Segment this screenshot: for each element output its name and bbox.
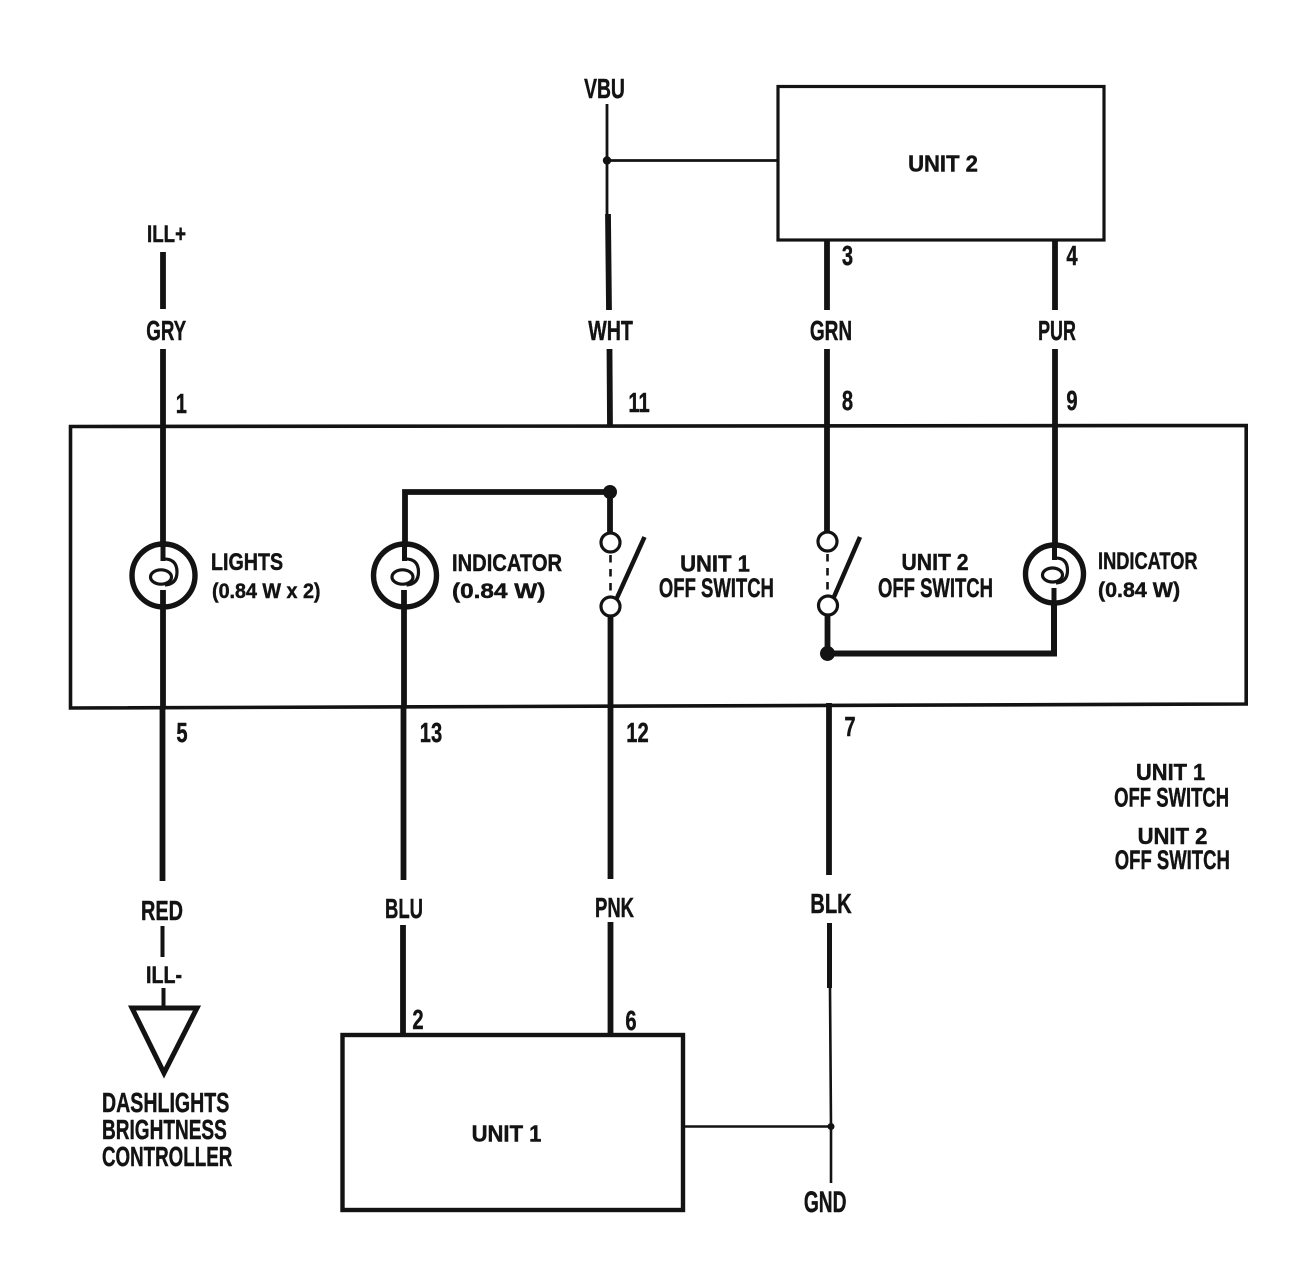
pin 3 wire (U2 to GRN) xyxy=(824,240,830,310)
svg-text:PNK: PNK xyxy=(595,893,634,924)
wire ILL+ stub xyxy=(160,252,166,309)
junction VBU node xyxy=(603,156,611,164)
wire GND tail xyxy=(830,1127,833,1184)
lamp L2 filament ellipse xyxy=(392,570,413,584)
svg-text:1: 1 xyxy=(176,389,187,420)
pin 13 wire below block xyxy=(401,706,407,880)
lamp L2 INDICATOR bulb circle xyxy=(374,544,437,607)
svg-text:3: 3 xyxy=(842,241,853,272)
switch S1 blade xyxy=(616,537,645,600)
wire WHT lower segment xyxy=(607,349,613,427)
switch S2 output wire xyxy=(825,615,831,654)
svg-text:6: 6 xyxy=(625,1006,636,1037)
lamp L3 filament ellipse xyxy=(1043,568,1063,582)
lamp L3 lower lead xyxy=(1052,588,1057,601)
svg-text:BLU: BLU xyxy=(385,894,423,925)
wire VBU vertical stub xyxy=(606,104,609,161)
svg-text:INDICATOR: INDICATOR xyxy=(1098,548,1198,575)
svg-text:OFF SWITCH: OFF SWITCH xyxy=(1115,844,1230,874)
svg-text:4: 4 xyxy=(1066,241,1078,272)
wire PUR to lamp L3 xyxy=(1052,423,1058,547)
ground symbol triangle (dashlights controller) xyxy=(132,1008,197,1073)
wire RED lower stub xyxy=(161,926,165,957)
wire BLU to UNIT1 pin 2 xyxy=(400,925,406,1035)
wire WHT upper thick segment xyxy=(608,214,609,310)
lamp L1 filament ellipse xyxy=(151,570,172,584)
svg-text:7: 7 xyxy=(844,712,855,743)
lamp L2 lower lead xyxy=(401,590,407,706)
unit U1 box UNIT 1 xyxy=(343,1035,684,1210)
svg-text:11: 11 xyxy=(628,388,649,419)
svg-text:LIGHTS: LIGHTS xyxy=(211,548,283,575)
svg-text:WHT: WHT xyxy=(588,316,633,347)
wire BLK thick stub xyxy=(827,923,832,988)
switch S1 dashed actuator line xyxy=(609,555,612,594)
wire BLK thin segment to ground node xyxy=(830,988,831,1127)
svg-text:12: 12 xyxy=(626,718,648,749)
lamp L2 filament lead xyxy=(402,547,407,561)
wire UNIT1 to GND node xyxy=(683,1125,831,1128)
wire WHT node to switch S1 xyxy=(607,492,613,534)
svg-text:13: 13 xyxy=(420,718,442,749)
pin 7 wire below block xyxy=(826,703,832,875)
unit U2 box UNIT 2 xyxy=(778,87,1104,241)
switch S1 output wire xyxy=(608,617,614,706)
wire thick tee from WHT node to lamp L2 xyxy=(405,492,610,547)
wire GRY lower segment xyxy=(160,349,166,427)
svg-text:RED: RED xyxy=(141,896,183,927)
pin 5 wire below block xyxy=(160,708,166,881)
svg-text:(0.84 W): (0.84 W) xyxy=(452,579,545,603)
lamp L3 INDICATOR bulb circle xyxy=(1026,545,1084,603)
switch S2 upper contact xyxy=(818,532,837,551)
wire ILL- stub to ground symbol xyxy=(162,988,166,1008)
svg-text:UNIT 2: UNIT 2 xyxy=(902,549,969,575)
svg-text:2: 2 xyxy=(412,1005,423,1036)
wire GRN to switch S2 xyxy=(824,424,830,533)
svg-text:GRN: GRN xyxy=(810,315,852,347)
junction node switch S2 / lamp L3 xyxy=(820,646,835,661)
switch S2 dashed actuator line xyxy=(826,554,829,593)
pin 12 wire below block xyxy=(608,706,614,879)
wire VBU lower thin segment xyxy=(606,161,609,215)
svg-text:INDICATOR: INDICATOR xyxy=(452,549,562,576)
svg-text:8: 8 xyxy=(842,386,853,417)
wire GRY to lamp L1 xyxy=(160,427,166,547)
svg-text:ILL+: ILL+ xyxy=(147,221,186,248)
junction node WHT/indicator xyxy=(603,485,617,499)
svg-text:OFF SWITCH: OFF SWITCH xyxy=(659,572,774,602)
svg-text:(0.84 W): (0.84 W) xyxy=(1098,579,1180,602)
svg-text:VBU: VBU xyxy=(584,74,625,105)
lamp L1 filament lead xyxy=(161,547,166,561)
svg-text:GND: GND xyxy=(804,1186,847,1219)
switch S2 blade xyxy=(834,537,861,598)
lamp L2 filament hook xyxy=(404,559,419,585)
switch S2 lower contact xyxy=(819,596,838,615)
svg-text:PUR: PUR xyxy=(1038,315,1076,346)
lamp L3 filament hook xyxy=(1054,558,1068,583)
svg-text:CONTROLLER: CONTROLLER xyxy=(102,1141,232,1173)
wire PNK to UNIT1 pin 6 xyxy=(608,922,614,1035)
wire VBU to UNIT2 xyxy=(607,159,778,162)
svg-text:5: 5 xyxy=(176,718,187,749)
pin 4 wire (U2 to PUR) xyxy=(1052,240,1058,310)
lamp L1 lower lead xyxy=(160,590,166,708)
svg-text:OFF SWITCH: OFF SWITCH xyxy=(1114,782,1229,812)
wire PUR lower segment xyxy=(1052,349,1058,423)
svg-text:OFF SWITCH: OFF SWITCH xyxy=(878,572,993,602)
junction node GND xyxy=(828,1123,835,1130)
lamp L3 filament lead xyxy=(1052,547,1057,560)
svg-text:UNIT 2: UNIT 2 xyxy=(908,151,978,177)
wire GRN lower segment xyxy=(824,349,830,424)
svg-text:9: 9 xyxy=(1066,386,1077,417)
wire thick bus S2 node to lamp L3 xyxy=(828,601,1055,654)
svg-text:(0.84 W x 2): (0.84 W x 2) xyxy=(212,580,321,603)
lamp L1 filament hook xyxy=(162,559,177,585)
switch S1 upper contact xyxy=(601,533,620,552)
switch S1 lower contact xyxy=(601,597,620,616)
svg-text:ILL-: ILL- xyxy=(146,961,182,988)
connector block box xyxy=(71,426,1247,709)
svg-text:UNIT 1: UNIT 1 xyxy=(472,1121,542,1147)
lamp L1 LIGHTS bulb circle xyxy=(132,544,195,607)
svg-text:BLK: BLK xyxy=(810,889,852,920)
svg-text:GRY: GRY xyxy=(146,315,186,347)
